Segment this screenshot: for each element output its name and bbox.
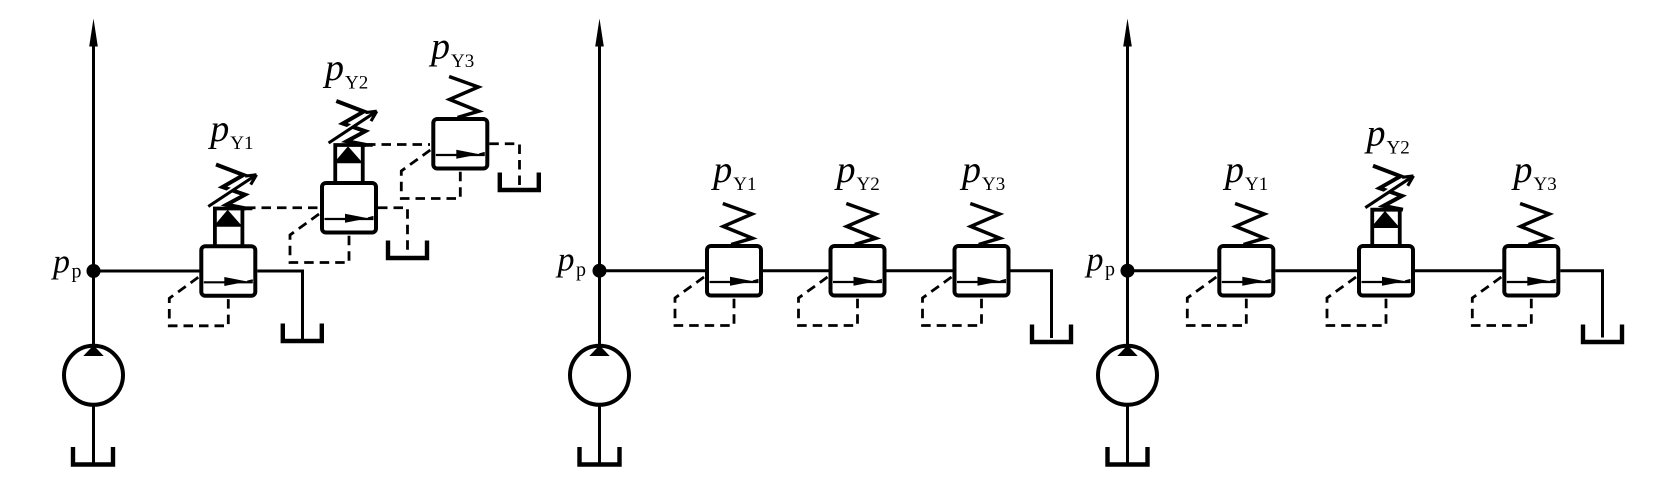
pilot poppet section of valve 3Y2 [1372, 210, 1400, 247]
ground: tank below pump P3 [1108, 447, 1148, 465]
wire (dashed drain loop) of valve 2Y1 [675, 277, 734, 326]
wire: p_p junction to valve 2Y1 inlet (circuit 2) [600, 269, 708, 272]
svg-text:p: p [1105, 259, 1115, 281]
spring of valve 3Y3 [1520, 204, 1550, 245]
wire (dashed pilot line): valve 1Y2 spring chamber to valve 1Y3 inlet [366, 143, 430, 146]
wire (dashed drain loop) of valve 2Y2 [799, 277, 858, 326]
svg-text:p: p [51, 243, 70, 280]
relief valve 1Y3 main body (circuit 1) [433, 119, 487, 169]
svg-text:p: p [959, 149, 981, 191]
wire: valve 3Y2 outlet to valve 3Y3 inlet [1415, 269, 1504, 272]
adjustable spring (with setting arrow) of valve 1Y2 [328, 101, 377, 145]
node: junction p_p (circuit 3) [1121, 264, 1135, 278]
wire: valve 3Y3 outlet to tank [1560, 271, 1602, 338]
wire: valve 2Y3 outlet to tank [1011, 271, 1052, 338]
pump P2 [570, 345, 629, 405]
label p_Y1 (circuit 3) [1222, 149, 1268, 195]
node: junction p_p (circuit 1) [87, 264, 101, 278]
ground: tank at valve 1Y1 outlet [283, 324, 322, 342]
wire (dashed): valve 1Y3 outlet to tank [489, 144, 519, 187]
pilot poppet section of valve 1Y1 [215, 209, 253, 247]
pilot poppet section of valve 1Y2 [335, 145, 373, 184]
spring of valve 2Y1 [723, 204, 753, 245]
svg-text:Y1: Y1 [230, 133, 253, 154]
wire: valve 1Y1 outlet to tank [257, 271, 302, 339]
arrow: flow direction at top of P1 supply line [89, 19, 98, 47]
ground: tank at valve 2Y3 outlet [1032, 325, 1071, 343]
svg-text:Y2: Y2 [345, 72, 368, 93]
wire: pump P1 outlet / supply riser [92, 46, 95, 345]
label p_Y2 (circuit 3) [1364, 112, 1410, 158]
wire (dashed drain loop) of valve 3Y2 [1327, 277, 1386, 326]
ground: tank at valve 3Y3 outlet [1583, 325, 1622, 343]
label p_Y1 (circuit 2) [710, 149, 756, 195]
svg-text:p: p [556, 242, 575, 279]
relief valve 3Y3 main body (circuit 3) [1504, 246, 1558, 296]
svg-text:Y3: Y3 [1534, 174, 1557, 195]
wire (dashed drain loop) of valve 3Y1 [1187, 277, 1246, 326]
wire: valve 3Y1 outlet to valve 3Y2 inlet [1275, 269, 1359, 272]
label p_p (circuit 1) [51, 243, 82, 282]
spring of valve 3Y1 [1235, 204, 1265, 245]
svg-text:p: p [1511, 149, 1533, 191]
svg-text:Y1: Y1 [733, 174, 756, 195]
svg-text:p: p [322, 47, 344, 89]
svg-text:p: p [207, 108, 229, 150]
spring of valve 2Y2 [846, 204, 876, 245]
wire: p_p junction to valve 3Y1 inlet (circuit 3) [1128, 269, 1220, 272]
svg-text:p: p [1085, 241, 1104, 278]
label p_Y3 (circuit 2) [959, 149, 1005, 195]
relief valve 1Y2 main body (circuit 1) [322, 183, 376, 233]
ground: tank below pump P1 [73, 447, 113, 465]
svg-text:p: p [72, 261, 82, 283]
wire (dashed drain loop) of valve 1Y2 [290, 214, 349, 263]
wire (dashed pilot line): valve 1Y1 spring chamber to valve 1Y2 inlet [246, 206, 319, 209]
adjustable spring (with setting arrow) of valve 1Y1 [207, 165, 256, 209]
label p_Y3 (circuit 1) [428, 26, 474, 72]
svg-text:Y2: Y2 [1387, 138, 1410, 159]
wire: pump P3 outlet / supply riser [1126, 46, 1129, 345]
relief valve 2Y1 main body (circuit 2) [707, 246, 761, 296]
arrow: flow direction at top of P3 supply line [1123, 19, 1132, 47]
relief valve 2Y3 main body (circuit 2) [955, 246, 1009, 296]
svg-text:Y3: Y3 [451, 51, 474, 72]
label p_p (circuit 3) [1085, 241, 1116, 280]
wire (dashed): valve 1Y2 outlet to tank [378, 208, 408, 255]
label p_Y1 (circuit 1) [207, 108, 253, 154]
svg-text:Y1: Y1 [1245, 174, 1268, 195]
ground: tank below pump P2 [580, 447, 620, 465]
wire: p_p junction to valve 1Y1 inlet (circuit 1) [94, 270, 203, 273]
relief valve 3Y2 main body (circuit 3) [1359, 246, 1413, 296]
spring of valve 1Y3 [449, 77, 479, 118]
svg-text:p: p [834, 149, 856, 191]
wire: pump P3 suction line to tank [1126, 405, 1129, 463]
ground: tank at valve 1Y2 outlet [388, 241, 427, 259]
wire (dashed drain loop) of valve 1Y1 [169, 277, 228, 326]
relief valve 2Y2 main body (circuit 2) [831, 246, 885, 296]
wire: pump P1 suction line to tank [92, 405, 95, 463]
wire (dashed drain loop) of valve 3Y3 [1472, 277, 1531, 326]
svg-text:p: p [710, 149, 732, 191]
svg-text:p: p [1222, 149, 1244, 191]
wire: valve 2Y1 outlet to valve 2Y2 inlet [763, 269, 830, 272]
wire: pump P2 suction line to tank [598, 405, 601, 463]
label p_p (circuit 2) [556, 242, 587, 281]
wire (dashed drain loop) of valve 2Y3 [923, 277, 982, 326]
arrow: flow direction at top of P2 supply line [595, 19, 604, 47]
spring of valve 2Y3 [970, 204, 1000, 245]
wire: pump P2 outlet / supply riser [598, 46, 601, 345]
svg-text:p: p [428, 26, 450, 68]
wire: valve 2Y2 outlet to valve 2Y3 inlet [887, 269, 955, 272]
node: junction p_p (circuit 2) [593, 264, 607, 278]
svg-text:Y2: Y2 [857, 174, 880, 195]
ground: tank at valve 1Y3 outlet [500, 173, 539, 191]
label p_Y2 (circuit 1) [322, 47, 368, 93]
adjustable spring (with setting arrow) of valve 3Y2 [1364, 166, 1413, 210]
pump P3 [1098, 345, 1157, 405]
relief valve 3Y1 main body (circuit 3) [1219, 246, 1273, 296]
wire (dashed drain loop) of valve 1Y3 [401, 150, 460, 199]
label p_Y2 (circuit 2) [834, 149, 880, 195]
relief valve 1Y1 main body (circuit 1) [201, 246, 255, 295]
svg-text:p: p [1364, 112, 1386, 154]
pump P1 [64, 345, 123, 405]
svg-text:Y3: Y3 [982, 174, 1005, 195]
svg-text:p: p [576, 259, 586, 281]
label p_Y3 (circuit 3) [1511, 149, 1557, 195]
